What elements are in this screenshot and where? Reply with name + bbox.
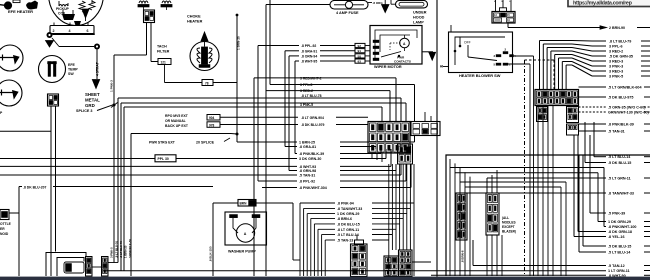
connector feed wires from top [495, 0, 497, 12]
wire .8 LT GRN-904 to connector [336, 116, 368, 118]
wire .8 WHT-90 right segment [644, 274, 650, 276]
splice tick [111, 103, 118, 108]
wire fuse to left drop [266, 4, 330, 6]
wire horn loop to EFE connector [0, 130, 51, 132]
switch contact 4 [510, 55, 514, 57]
wire .5 TAN-12 [472, 240, 474, 266]
wire 2 BRN-90 arrow tick [600, 26, 607, 29]
pickup coil winding symbol [59, 5, 68, 7]
svg-text:20 SPLICE: 20 SPLICE [196, 141, 215, 145]
distributor shaft nub [74, 21, 81, 26]
wire stubs into connector stack 1 [356, 235, 358, 241]
bottom-left nested wire box inner [57, 258, 84, 277]
bottom connector 2 [384, 256, 399, 277]
wire stub near bottom connector 3 [412, 261, 431, 263]
washer pump motor circle A [236, 224, 254, 242]
main bulkhead connector strip [535, 90, 579, 106]
wire tach connector right pin down [150, 23, 152, 62]
wire 1 DK GRN-29 [306, 214, 308, 276]
wiper motor box [370, 26, 422, 65]
wire from 978 tag [220, 124, 298, 126]
wire .5 PNK-39 [589, 135, 591, 213]
svg-text:GRN/WHT-130 (W/C-60): GRN/WHT-130 (W/C-60) [608, 111, 650, 115]
choke heater feed wire [204, 41, 206, 47]
wire 3 RED-3 (fan) [561, 62, 563, 90]
wire from blower switch contact 4 [514, 55, 534, 57]
svg-text:.8 DK BLU-979: .8 DK BLU-979 [301, 123, 324, 127]
svg-text:PPL 30: PPL 30 [158, 157, 169, 161]
svg-text:HOOD: HOOD [413, 16, 425, 20]
svg-text:.5 DK GRN-35: .5 DK GRN-35 [609, 55, 633, 59]
tach filter box 121 [158, 59, 171, 65]
svg-text:METAL: METAL [85, 98, 100, 103]
wire into tach filter [151, 61, 158, 63]
wire .8 DK GRN-18 [577, 135, 579, 232]
pin stub 6 [87, 23, 89, 26]
wire 3 PPL-5 [269, 0, 271, 85]
svg-text:.8 PNK/BLK-39: .8 PNK/BLK-39 [608, 123, 634, 127]
wire .8 YEL-16 right segment [644, 236, 650, 238]
svg-text:.5 DK BLU-15: .5 DK BLU-15 [608, 245, 631, 249]
svg-text:.8 TAN/WHT-33: .8 TAN/WHT-33 [608, 192, 634, 196]
switch contact 2 [503, 52, 508, 54]
svg-text:.8 PNK/WHT-304: .8 PNK/WHT-304 [299, 186, 327, 190]
svg-text:.5 DK BLU-975: .5 DK BLU-975 [608, 96, 633, 100]
wire corner y107 [123, 107, 125, 271]
svg-text:ER: ER [0, 227, 5, 231]
svg-text:2 BRN-90: 2 BRN-90 [609, 26, 625, 30]
wire .5 DK GRN-35 (fan) [550, 51, 552, 90]
wire .5 LT BLU-14 right segment [644, 156, 650, 158]
pin stub 2 [53, 23, 55, 26]
svg-text:PWR STRG EXT: PWR STRG EXT [149, 141, 176, 145]
wire tach connector left pin down [146, 23, 148, 56]
wires below box strips [486, 235, 488, 276]
browser url field (cut at top edge) [568, 0, 650, 7]
wire 3 RED-2 (fan) [546, 48, 548, 90]
svg-text:.8 DK GRN-18: .8 DK GRN-18 [608, 230, 632, 234]
wire .5 PNK-39 right segment [644, 212, 650, 214]
wiper connector pin 93 [355, 59, 365, 63]
wire .8 GRN-98 [289, 170, 297, 172]
svg-text:.5 TAN-31: .5 TAN-31 [608, 130, 625, 134]
wire GRN/WHT-130 (W/C-60) [579, 111, 607, 113]
bottom connector stack 1 stub [355, 240, 364, 245]
wire .8 DK BLU-979 to connector [336, 124, 368, 126]
svg-text:BACK UP EXT: BACK UP EXT [165, 124, 189, 128]
svg-text:.8 LT BLU-78: .8 LT BLU-78 [301, 94, 322, 98]
wire 3 RED/WHT-2 [253, 78, 255, 276]
strap node dot (donut) [94, 44, 100, 50]
svg-text:4 STRAP: 4 STRAP [96, 61, 100, 76]
center connector sub-block below [398, 144, 413, 164]
svg-text:3 PNK/BLK-39: 3 PNK/BLK-39 [128, 239, 132, 258]
wire .8 DK BLU-207 corner [18, 187, 20, 214]
horn 1 circle [0, 45, 23, 71]
connector strip lower cells right [567, 107, 579, 123]
wire .8 PNK/BLK-39 [579, 123, 607, 125]
svg-text:.8 DK BLU-15: .8 DK BLU-15 [337, 222, 360, 226]
wire .5 DK BLU-15 [584, 122, 586, 163]
svg-text:.8 LT GRN-11: .8 LT GRN-11 [337, 228, 359, 232]
dashed harness boundary top [525, 59, 555, 61]
wire .8 PPL-92 [258, 45, 299, 47]
wire .8 WHT-93 [0, 165, 297, 167]
wire .5 LT GRN-11 right segment [644, 177, 650, 179]
svg-text:1 DK GRN-29: 1 DK GRN-29 [337, 212, 359, 216]
svg-text:3 PNK-5: 3 PNK-5 [609, 75, 623, 79]
svg-text:.8 GRA-91: .8 GRA-91 [301, 49, 317, 53]
svg-text:.8 PNK-94: .8 PNK-94 [337, 202, 354, 206]
wiper park switch arm [381, 52, 401, 58]
wire .8 PPL-92 [258, 180, 297, 182]
wire .5 DK BLU-975 right segment [644, 96, 650, 98]
washer pump brush pads [230, 215, 238, 218]
tag box 904 [207, 115, 220, 121]
svg-text:.5 ORN-35 (W/O C-60): .5 ORN-35 (W/O C-60) [608, 106, 646, 110]
switch wiper arm [467, 45, 469, 57]
wire .5 ORN-35 (W/O C-60) right segment [644, 106, 650, 108]
svg-text:91: 91 [358, 49, 362, 53]
wire .5 LT BLU-14 [321, 235, 323, 277]
wire lamp stub [391, 3, 396, 5]
switch contact 1 [503, 63, 508, 65]
wire 3 PNK-3 right segment [641, 65, 650, 67]
svg-text:.5 TAN-12: .5 TAN-12 [608, 264, 625, 268]
sheet metal ground arrow [92, 80, 99, 89]
wire .5 LT BLU-14 [578, 155, 580, 252]
wire .8 PNK/BLK-39 right segment [644, 123, 650, 125]
EFE switch connector block [48, 94, 59, 106]
svg-text:EFE: EFE [68, 63, 75, 67]
switch contact 3 [496, 55, 501, 57]
wires feeding strip B from top [491, 175, 493, 193]
wire dist pin 6 to ground stud [53, 34, 95, 36]
svg-text:HEATER: HEATER [187, 20, 203, 24]
svg-text:1 LT GRN-11: 1 LT GRN-11 [608, 269, 630, 273]
box interior connector strip A [456, 193, 467, 240]
wire continuation x114 down [113, 105, 115, 263]
wire .8 DK BLU-15 [313, 224, 315, 276]
svg-text:.8 LT BLU-78: .8 LT BLU-78 [119, 241, 123, 258]
svg-text:EFE HEATER: EFE HEATER [8, 9, 33, 14]
svg-text:3 PNK-5: 3 PNK-5 [300, 103, 313, 107]
wire bottom-left jumper [92, 266, 102, 268]
svg-text:A: A [244, 232, 247, 236]
wire .5 TAN-13 [324, 240, 326, 276]
wire 1 LT GRN-11 right segment [644, 270, 650, 272]
wire .8 TAN/WHT-33 [303, 208, 305, 276]
bottom taskbar [0, 277, 650, 280]
tach connector block [144, 10, 155, 23]
wire from EFE connector down-left [50, 106, 52, 276]
wire corner y103 [120, 103, 122, 271]
svg-text:978: 978 [209, 123, 215, 127]
wire stub into connector right extension [424, 112, 426, 122]
svg-text:TEMP: TEMP [68, 68, 78, 72]
svg-text:https://my.alldata.com/rep: https://my.alldata.com/rep [573, 1, 633, 7]
box interior upper horizontals [460, 181, 566, 183]
wire 1 BRN-25 [237, 141, 297, 143]
svg-text:(ALL: (ALL [502, 216, 509, 220]
EFE heater icon (right blob) [26, 1, 38, 10]
wire .8 PNK/WHT-100 right segment [644, 226, 650, 228]
svg-text:.8 GRN-98: .8 GRN-98 [299, 169, 316, 173]
washer pump box [225, 212, 267, 245]
wire .8 PNK-94 [299, 203, 301, 276]
svg-text:.8 BRN-6: .8 BRN-6 [337, 217, 352, 221]
wire from blower switch contact 1 [508, 63, 530, 65]
wire .8 ORN-94 [289, 55, 299, 57]
wire from EFE connector down-right [55, 106, 57, 252]
wire bottom-left collector [108, 262, 118, 264]
svg-text:3 RED-2: 3 RED-2 [609, 50, 623, 54]
svg-text:WASHER PUMP: WASHER PUMP [228, 250, 256, 254]
wire .5 DK BLU-15 [582, 155, 584, 246]
distributor internal arrow (filled) [82, 9, 89, 18]
wire .8 TAN/WHT-33 [466, 192, 606, 194]
svg-text:CONTACTS: CONTACTS [394, 59, 411, 63]
svg-text:3 RED/WHT-2: 3 RED/WHT-2 [300, 76, 322, 80]
wire 2 BRN-90 right segment [637, 27, 650, 29]
bottom-left black pad component [66, 264, 72, 272]
svg-text:.8 TAN/WHT-33: .8 TAN/WHT-33 [337, 207, 362, 211]
wire .5 TAN-12 right segment [644, 265, 650, 267]
svg-text:MODLES: MODLES [502, 221, 516, 225]
wire .8 YEL-16 [573, 135, 575, 237]
svg-text:3 PNK-3: 3 PNK-3 [609, 65, 623, 69]
wiper connector pin 92 [355, 43, 365, 47]
choke heater element (center bar) [202, 47, 208, 64]
wire .8 LT GRN-11 [317, 229, 319, 276]
wire 1 PNK-3 vertical [113, 55, 115, 105]
bottom connector stack 1 [351, 244, 368, 277]
svg-text:.5 LT GRN/BLK-604: .5 LT GRN/BLK-604 [608, 86, 642, 90]
wire .8 LT BLU-79 (fan) [539, 41, 541, 90]
wire 3 RED-3 (fan) [554, 55, 556, 90]
wire box 78 to BRN splice [213, 82, 237, 84]
svg-text:FILTER: FILTER [157, 50, 170, 54]
wire .8 DK BLU-207 to washer pump feed [53, 186, 213, 188]
wire .8 PNK/WHT-100 [450, 167, 604, 169]
splice junction dot [113, 104, 116, 107]
bottom-left nested wire box outer [46, 253, 86, 277]
wire 3 RED-3 right segment [641, 60, 650, 62]
EFE heater small box [13, 0, 20, 3]
wire pin stubs to wiper motor [365, 45, 370, 47]
svg-text:3 RED-2: 3 RED-2 [300, 89, 313, 93]
svg-text:3 RED-3: 3 RED-3 [609, 70, 623, 74]
wire 3 DK GRN-30 [176, 158, 297, 160]
wire .8 TAN/WHT-33 right segment [644, 192, 650, 194]
wire 3 RED-2 mid [265, 5, 267, 91]
pickup coil pole piece (filled) [62, 14, 75, 20]
svg-text:SW: SW [68, 72, 74, 76]
wire tach filter to box 78 [164, 65, 166, 83]
svg-text:93: 93 [358, 60, 362, 64]
svg-text:1 BRN-25: 1 BRN-25 [237, 36, 241, 50]
heater blower connector block [492, 12, 515, 24]
wire .5 TAN-31 [579, 130, 607, 132]
svg-text:RPO MV5 EXT: RPO MV5 EXT [165, 114, 189, 118]
svg-text:OFF: OFF [464, 41, 471, 45]
svg-text:6: 6 [87, 29, 89, 33]
svg-text:.5 LT BLU-14: .5 LT BLU-14 [337, 233, 359, 237]
svg-text:.5 DK BLU-15: .5 DK BLU-15 [608, 161, 631, 165]
svg-text:M: M [502, 1, 504, 3]
svg-text:BLAZER): BLAZER) [502, 230, 516, 234]
wire kicker vertical down [18, 213, 20, 276]
wire GRN/WHT-130 (W/C-60) right segment [644, 111, 650, 113]
svg-text:.5 LT BLU-14: .5 LT BLU-14 [608, 251, 631, 255]
wire 3 PNK-5 (fan) [565, 65, 567, 90]
ignition coil symbol left [139, 1, 148, 3]
horn 2 circle [0, 80, 22, 106]
wire .5 LT GRN/BLK-604 [579, 86, 607, 88]
wire 3 PNK-5 right segment [641, 75, 650, 77]
wire .5 DK GRN-35 right segment [641, 55, 650, 57]
svg-text:OTTLE: OTTLE [0, 222, 12, 226]
under hood lamp capsule [396, 1, 428, 8]
wiper motor brush pads [373, 40, 379, 43]
wire .5 TAN-31 [0, 174, 297, 176]
svg-text:TACH: TACH [157, 45, 167, 49]
wire .8 BRN-6 [310, 218, 312, 276]
fuse output arrow (filled) [382, 5, 390, 13]
wire horizontal PPL-30 left segment [0, 158, 155, 160]
wiper motor inner frame [375, 30, 417, 58]
wire .8 GRA-81 [285, 146, 297, 148]
svg-text:.8 WHT-95: .8 WHT-95 [301, 60, 317, 64]
svg-text:.5 TAN-13: .5 TAN-13 [337, 239, 353, 243]
center bulkhead connector block [368, 122, 410, 154]
svg-text:78: 78 [205, 81, 209, 85]
svg-text:.8 ORN-94: .8 ORN-94 [301, 54, 317, 58]
wire across bottom y271 (1 LT GRN-11 run) [103, 270, 606, 272]
svg-text:3 DK GRN-30: 3 DK GRN-30 [299, 157, 321, 161]
wiper connector pin 91 [355, 49, 365, 53]
heater blower connector top cell [500, 8, 507, 12]
choke heater circle [190, 42, 219, 71]
horn 2 symbol [0, 92, 17, 94]
svg-text:58: 58 [358, 54, 362, 58]
svg-text:.8 PNK/WHT-100: .8 PNK/WHT-100 [608, 225, 636, 229]
svg-text:NOID: NOID [0, 232, 9, 236]
ignition coil symbol right [162, 1, 171, 3]
svg-text:.8 LT GRN-904: .8 LT GRN-904 [301, 116, 324, 120]
svg-text:1 DK GRN-29: 1 DK GRN-29 [608, 220, 631, 224]
harness verticals below connector strip [537, 106, 539, 276]
choke heater coil loops right [209, 48, 212, 63]
svg-text:.8 BRN-6: .8 BRN-6 [461, 250, 465, 263]
wire .8 GRA-91 [285, 50, 299, 52]
wire .8 PNK/BLK-39 [295, 153, 297, 155]
EFE heater connector icon (left blob) [0, 4, 5, 6]
bottom-left connector B [102, 257, 109, 277]
EFE temp switch symbol [48, 62, 51, 77]
wire .5 DK BLU-975 [579, 96, 607, 98]
wire left drop x266 [265, 5, 267, 277]
wire kicker to vertical [9, 212, 19, 214]
wiper motor armature circle A [400, 38, 410, 48]
large option box outline [446, 155, 650, 276]
choke heater coil loops left [197, 48, 200, 63]
wire .5 DK BLU-15 right segment [644, 245, 650, 247]
heater blower switch box [449, 32, 513, 73]
tag box 978 [207, 122, 220, 128]
switch inner wiring [455, 37, 505, 65]
wire 3 RED-2 right segment [641, 50, 650, 52]
wire .8 LT BLU-79 right segment [641, 40, 650, 42]
svg-text:3 PPL-6: 3 PPL-6 [609, 45, 623, 49]
svg-text:1 BRN-25: 1 BRN-25 [299, 141, 315, 145]
svg-text:.8 PNK/BLK-39: .8 PNK/BLK-39 [299, 152, 324, 156]
svg-text:EXCEPT: EXCEPT [502, 225, 515, 229]
svg-text:.5 LT GRN-11: .5 LT GRN-11 [608, 177, 631, 181]
wire 1 DK GRN-29 right segment [644, 221, 650, 223]
svg-text:3 PNK-5: 3 PNK-5 [110, 247, 114, 258]
wire x131 down [130, 134, 132, 277]
wire washer pump left feed [213, 202, 238, 204]
wire .8 PNK/WHT-304 [262, 187, 297, 189]
wire 2 BRN-90 from connector [507, 23, 509, 28]
svg-text:CHOKE: CHOKE [187, 15, 201, 19]
wire .5 DK BLU-15 right segment [644, 162, 650, 164]
box interior nested wires [449, 159, 451, 276]
wire corner y98 [117, 98, 119, 263]
washer pump internal wires [233, 218, 238, 233]
wire .5 TAN-31 right segment [644, 130, 650, 132]
svg-text:.8 DK BLU-207: .8 DK BLU-207 [23, 185, 46, 189]
splice 3 pointer line [97, 105, 113, 111]
connector strip lower cells left [537, 107, 548, 122]
wire washer pump right feed [256, 202, 293, 204]
horn 1 symbol [0, 57, 18, 59]
wire fuse right + label .8 ORG [368, 2, 372, 4]
ground stud (donut node) [47, 32, 53, 38]
wire 3 PPL-6 (fan) [542, 44, 544, 90]
wire .5 LT GRN/BLK-604 right segment [644, 86, 650, 88]
wire .5 LT BLU-14 right segment [644, 251, 650, 253]
svg-text:1 PNK-3: 1 PNK-3 [110, 80, 114, 92]
choke heater arrow up (filled) [201, 32, 208, 41]
tag box PPL 30 [155, 155, 176, 162]
svg-text:121: 121 [161, 60, 167, 64]
EFE temp switch circle [39, 56, 66, 83]
svg-text:4 AMP FUSE: 4 AMP FUSE [336, 11, 359, 15]
svg-text:.8 PPL-92: .8 PPL-92 [299, 180, 315, 184]
fuse capsule 4 AMP [330, 1, 368, 10]
svg-text:.8 GRA-81: .8 GRA-81 [299, 145, 316, 149]
wire .8 DK GRN-18 right segment [644, 231, 650, 233]
wiper connector pin 58 [355, 54, 365, 58]
wiper park contacts dashes [390, 42, 402, 44]
throttle kicker connector [0, 210, 9, 220]
wire drop into center connector [381, 107, 383, 122]
wire from left bundle to splice 20 [131, 133, 231, 135]
wire .8 WHT-95 [295, 60, 299, 62]
svg-text:GRD: GRD [85, 103, 95, 108]
svg-text:3 PPL-5: 3 PPL-5 [300, 83, 313, 87]
wiper ground arrow (filled) [429, 52, 436, 60]
washer pump tag box BRN-34 [238, 200, 256, 207]
wire elbow to 1 PNK-3 drop [114, 54, 147, 56]
svg-text:4: 4 [69, 29, 71, 33]
dash-dot harness divider [524, 60, 526, 276]
svg-text:SPLICE 3: SPLICE 3 [76, 109, 92, 113]
wire stubs below center connector [371, 153, 373, 158]
svg-text:2: 2 [53, 29, 55, 33]
